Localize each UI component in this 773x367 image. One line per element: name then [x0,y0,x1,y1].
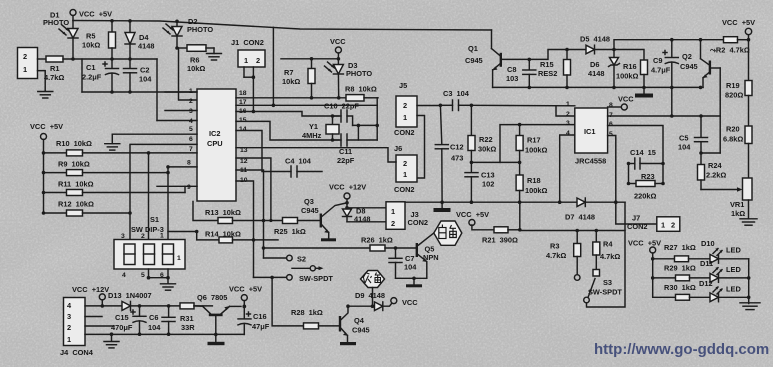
svg-text:6.8kΩ: 6.8kΩ [723,135,743,144]
node VCC-D3 [337,57,341,61]
svg-text:R15: R15 [540,60,554,69]
node rail C15 [138,332,142,336]
svg-text:PHOTO: PHOTO [346,69,372,78]
svg-text:3: 3 [566,120,570,127]
ground below R1 [38,92,53,99]
VCC +5V terminal top-left [70,10,112,21]
svg-text:C8: C8 [507,65,516,74]
crystal Y1 4MHz [302,116,339,140]
wire VCC row [281,58,338,60]
wire pin18 row [236,97,346,99]
svg-text:R5: R5 [86,32,95,41]
node C12 top [439,104,443,108]
svg-text:R27 1kΩ: R27 1kΩ [664,243,696,252]
resistor R24 2.2k [698,153,727,190]
svg-text:C945: C945 [301,206,319,215]
transistor Q6 7805 [194,293,241,334]
svg-text:1: 1 [160,233,164,240]
node R23 left [627,182,631,186]
svg-text:4148: 4148 [588,69,604,78]
wire C5 link [701,152,720,154]
svg-text:R11 10kΩ: R11 10kΩ [58,180,94,189]
wire J5 out [417,105,440,107]
svg-text:2.2kΩ: 2.2kΩ [706,171,726,180]
svg-text:VCC +5V: VCC +5V [456,210,489,219]
ground Q3 [321,238,336,241]
node D4-C2 [128,57,132,61]
VCC terminal D9 [391,298,418,307]
node D6 bot [612,86,616,90]
node R12 drop [128,211,132,215]
resistor R12 [44,200,131,217]
svg-text:9: 9 [187,184,191,191]
svg-text:Q2: Q2 [682,52,692,61]
svg-text:RES2: RES2 [538,69,557,78]
svg-text:R28 1kΩ: R28 1kΩ [291,308,323,317]
node R22 top [470,104,474,108]
wire C16 return [216,333,245,335]
node C7 [394,246,398,250]
svg-text:R7: R7 [284,68,293,77]
capacitor C7 104 [389,248,417,278]
svg-text:LED: LED [726,265,741,274]
wire DIP col2 [148,153,150,240]
svg-text:473: 473 [451,154,463,163]
svg-text:2: 2 [23,52,27,61]
wire gnd rail [405,201,577,203]
connector J1 CON2 [231,38,265,77]
node R11 rail [42,191,46,195]
svg-text:18: 18 [239,90,247,97]
svg-text:J4 CON4: J4 CON4 [60,348,94,357]
svg-text:IC1: IC1 [584,127,596,136]
svg-text:5: 5 [609,131,613,138]
svg-text:R23: R23 [641,172,655,181]
svg-text:SW-SPDT: SW-SPDT [588,288,622,297]
resistor R25 1k [274,218,320,237]
VCC terminal mid [330,37,346,59]
svg-text:3: 3 [121,233,125,240]
diode D6 4148 zener [588,50,620,88]
svg-text:470μF: 470μF [111,323,133,332]
svg-text:1: 1 [23,65,27,74]
svg-text:4: 4 [122,272,126,279]
LED D10 [701,239,749,263]
svg-text:4: 4 [189,118,193,125]
svg-text:VCC +5V: VCC +5V [79,10,112,19]
svg-text:1: 1 [391,207,395,216]
svg-text:4.7kΩ: 4.7kΩ [44,73,64,82]
transistor Q4 C945 [339,306,370,342]
svg-text:C16: C16 [253,312,267,321]
wire pin8 [168,166,197,168]
node R7 on row [310,96,314,100]
connector J3 CON2 [386,202,428,230]
svg-text:R18: R18 [527,176,541,185]
wire DIP col1 [167,167,169,240]
svg-text:VCC: VCC [402,298,418,307]
wire pin4 riser [560,135,575,202]
wire DIP col3 [129,153,131,240]
ground Q6 [208,334,225,345]
svg-text:8: 8 [187,160,191,167]
node LED r1 [651,257,655,261]
svg-text:SW DIP-3: SW DIP-3 [131,225,164,234]
node C14 left [627,162,631,166]
svg-text:2: 2 [403,159,407,168]
wire R8 drop [353,98,378,140]
wire SPDT to R28 [272,277,303,326]
svg-text:R13 10kΩ: R13 10kΩ [205,208,241,217]
node +12V [101,304,105,308]
svg-text:C3 104: C3 104 [443,89,470,98]
svg-text:D9 4148: D9 4148 [355,291,385,300]
svg-text:C945: C945 [465,56,483,65]
connector J6 CON2 [394,144,417,194]
node SPDT drop [270,276,274,280]
svg-text:12: 12 [240,158,248,165]
svg-text:R9 10kΩ: R9 10kΩ [58,160,90,169]
diode D8 4148 [343,207,371,224]
node rail C13 [470,200,474,204]
label diamond white [434,221,462,245]
svg-text:2.2μF: 2.2μF [82,73,102,82]
svg-text:VCC +5V: VCC +5V [628,239,661,248]
svg-text:1: 1 [403,113,407,122]
svg-text:CON2: CON2 [394,185,415,194]
node pin10 R14 [252,238,256,242]
resistor R18 100k [516,162,547,202]
node pin12 [269,219,272,222]
node C6 [167,304,171,308]
svg-text:R22: R22 [479,135,493,144]
svg-text:J5: J5 [399,81,407,90]
svg-text:R30 1kΩ: R30 1kΩ [664,283,696,292]
node DIP5 [147,276,151,280]
svg-text:Q3: Q3 [304,197,314,206]
svg-text:D5 4148: D5 4148 [580,35,610,44]
node R17 bot [518,161,522,165]
svg-text:C13: C13 [481,171,495,180]
node R4 [595,229,599,233]
wire C14-R23 left link [628,164,630,184]
svg-text:J6: J6 [394,144,402,153]
node R10 drop [147,151,151,155]
node R25 tap [262,219,266,223]
resistor R11 [44,180,186,196]
svg-text:10kΩ: 10kΩ [187,64,205,73]
resistor R15 RES2 [538,50,571,88]
svg-text:S3: S3 [603,278,612,287]
node C15 [138,304,142,308]
node J1 pin16 [252,110,256,114]
node R16 bot [642,86,646,90]
ground LED bus [740,303,760,310]
capacitor C1 [82,59,119,92]
node R10 rail [42,151,46,155]
svg-text:R31: R31 [180,314,194,323]
transistor Q2 C945 [680,40,720,88]
ground Q4 [340,342,356,345]
transistor Q3 C945 [301,197,347,238]
svg-text:Q4: Q4 [354,316,365,325]
svg-text:4.7μF: 4.7μF [651,66,671,75]
svg-text:R10 10kΩ: R10 10kΩ [56,139,92,148]
svg-text:100kΩ: 100kΩ [525,146,547,155]
svg-text:1kΩ: 1kΩ [731,209,745,218]
resistor R31 33R [180,303,212,332]
svg-text:1: 1 [244,56,248,65]
switch lever SW-SPDT [292,266,324,271]
resistor R28 1k [291,308,339,329]
svg-text:2: 2 [141,233,145,240]
svg-text:R1: R1 [50,64,59,73]
resistor R9 [44,160,169,176]
node C14 right [661,162,665,166]
svg-text:1: 1 [177,255,181,262]
svg-text:R25 1kΩ: R25 1kΩ [274,227,306,236]
node stem [371,304,375,308]
resistor R10 [44,139,149,156]
VCC +5V terminal at Q6 [229,285,262,307]
svg-text:15: 15 [239,117,247,124]
resistor R22 30k [468,105,496,162]
ground at R6 [207,48,222,60]
wire pin16 to C10 [236,112,339,117]
switch lower contact [254,274,334,283]
node R1-D1 [71,57,75,61]
node Q2 coll [699,38,703,42]
capacitor C11 22pF [333,134,378,165]
resistor R5 [82,21,116,59]
svg-text:J1 CON2: J1 CON2 [231,38,264,47]
wire J4 pin3 stub [85,316,102,318]
resistor R1 [38,56,65,82]
wire pin7 from R10 [149,152,198,154]
wire pin7 [608,115,721,117]
diode D5 4148 [567,35,614,54]
svg-text:C15: C15 [115,313,129,322]
wire pin15 to C11 [236,121,339,140]
node VCC-R7 [310,57,314,61]
svg-text:D10: D10 [701,239,715,248]
wire pin17 row [236,104,377,106]
ground VR1 [740,219,757,225]
node Q6 out [242,305,246,309]
node Y1 bottom [331,138,335,142]
node rail-D2 [175,20,179,24]
svg-text:2: 2 [566,111,570,118]
connector CON2 left [18,48,38,79]
node R21 [518,228,522,232]
wire DIP bottom [149,277,169,279]
svg-text:6: 6 [609,121,613,128]
wire DIP pin6 stub [167,269,169,278]
node D5 cath [612,48,616,52]
svg-text:6: 6 [189,136,193,143]
svg-text:3: 3 [189,108,193,115]
svg-text:2: 2 [403,101,407,110]
capacitor C12 473 [435,105,463,202]
LED D12 [699,279,749,302]
wire D2 to IC2 pin2 [179,48,198,100]
node Q2 emit [699,86,703,90]
svg-text:100kΩ: 100kΩ [525,186,547,195]
wire D9 row [348,305,375,307]
resistor R27 1k [653,243,710,262]
wire R11 corner [184,186,186,192]
svg-text:PHOTO: PHOTO [187,25,213,34]
svg-text:JRC4558: JRC4558 [575,157,606,166]
wire pin6 [130,144,197,153]
svg-text:1: 1 [67,335,71,344]
wire pin6 riser [608,126,663,184]
svg-text:10kΩ: 10kΩ [82,41,100,50]
node rail R18 [518,200,522,204]
svg-text:C4 104: C4 104 [285,157,312,166]
svg-text:SW-SPDT: SW-SPDT [299,274,333,283]
VCC +12V terminal [72,285,109,306]
ground DIP [161,278,176,291]
svg-text:Q6 7805: Q6 7805 [197,293,227,302]
svg-text:CON2: CON2 [408,218,429,227]
wire DIP pin5 stub [148,269,150,278]
connector J4 CON4 [60,298,94,358]
ground rail [104,334,119,348]
svg-text:D7 4148: D7 4148 [565,213,595,222]
capacitor C15 470uF [111,306,146,334]
wire pin4 [157,120,197,122]
wire pin1 [165,91,197,93]
wire R22 to pin3 riser [471,161,519,163]
wire con pin1 [38,71,46,91]
VCC terminal IC1 [608,95,635,111]
node rail J7 [614,200,618,204]
connector J5 CON2 [394,81,417,137]
svg-text:R3: R3 [550,242,559,251]
svg-text:4148: 4148 [138,42,154,51]
svg-text:4.7kΩ: 4.7kΩ [546,251,566,260]
resistor R6 [177,45,214,73]
node rail17 [272,104,276,108]
svg-text:104: 104 [678,143,691,152]
capacitor C4 104 [236,131,322,178]
wire J4 pin2 stub [85,325,114,327]
wire emitter rail [493,86,703,88]
svg-text:C2: C2 [140,66,149,75]
svg-text:CON2: CON2 [394,128,415,137]
node R9 drop [166,171,170,175]
svg-text:4: 4 [566,130,570,137]
svg-text:1: 1 [566,101,570,108]
node bus r3 [747,296,751,300]
wire top rail [73,21,492,31]
capacitor C13 102 [465,162,495,202]
node R17 top [518,123,522,127]
svg-text:R17: R17 [527,136,541,145]
svg-text:D11: D11 [700,259,713,268]
svg-text:D12: D12 [699,279,713,288]
node bus r2 [747,276,751,280]
svg-text:R8 10kΩ: R8 10kΩ [345,85,377,94]
diode D13 1N4007 [108,291,180,310]
svg-text:102: 102 [482,180,494,189]
switch S3 SW-SPDT [584,202,625,307]
svg-text:1: 1 [403,170,407,179]
wire R3R4 row [520,230,625,232]
node C1 bottom [110,90,114,94]
svg-text:4MHz: 4MHz [302,131,322,140]
wire pin2 [556,106,575,116]
wire pin13 to J6 [236,148,396,162]
capacitor C9 4.7uF [651,40,678,116]
svg-text:VCC: VCC [618,95,634,104]
ground on rail [434,202,451,212]
wire cap box right [156,59,158,121]
svg-text:IC2: IC2 [209,129,221,138]
resistor R30 1k [653,283,710,300]
VCC +5V terminal left [30,122,63,213]
resistor R13 [193,202,283,224]
photodiode D1 [43,11,78,60]
capacitor C14 15 [629,148,664,169]
svg-text:PHOTO: PHOTO [43,18,69,27]
node R26 tap [262,246,266,250]
svg-text:100kΩ: 100kΩ [616,72,638,81]
resistor R23 220k [629,172,664,201]
resistor R4 4.7k [593,231,621,277]
svg-text:D6: D6 [590,60,599,69]
wire pin11 riser [236,170,264,249]
potentiometer VR1 1k [701,178,752,219]
wire D8 to J3 top [347,207,386,209]
svg-text:VCC +12V: VCC +12V [329,183,366,192]
wire to IC1 pin1 [471,104,574,107]
svg-text:LED: LED [726,285,741,294]
svg-text:1: 1 [661,221,665,230]
ground R16 [635,87,653,97]
svg-text:33R: 33R [181,323,195,332]
wire gnd rail bottom [85,333,216,335]
svg-text:4.7kΩ: 4.7kΩ [600,252,620,261]
node D2-R6 [175,46,179,50]
resistor R17 100k [516,125,547,163]
label diamond gray [361,271,385,288]
wire cap box bottom [82,91,197,93]
svg-text:C6: C6 [149,313,158,322]
node Q6 gnd [214,333,218,337]
wire Q2 base riser [719,68,721,153]
capacitor C5 104 [678,116,708,153]
svg-text:R21 390Ω: R21 390Ω [482,236,518,245]
wire R1 row [63,58,157,60]
switch S2 [264,255,307,264]
svg-text:R20: R20 [726,125,740,134]
svg-text:2: 2 [671,221,675,230]
resistor R19 820 [725,40,752,126]
node Q3 coll [345,201,349,205]
node R2 VCC [747,38,751,42]
node rail-R5 [110,19,114,23]
svg-text:VCC +5V: VCC +5V [722,18,755,27]
wire LED bus [748,259,750,304]
node R15 bot [565,86,569,90]
connector J7 CON2 [616,202,680,231]
transistor Q5 NPN [416,233,439,278]
resistor R29 1k [653,264,710,281]
wire R21 riser [519,202,521,230]
wire rail to pin17 [272,27,274,105]
